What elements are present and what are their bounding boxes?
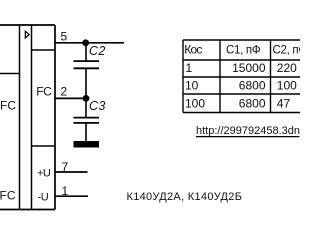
svg-text:К140УД2А, К140УД2Б: К140УД2А, К140УД2Б [127, 191, 243, 203]
svg-text:FC: FC [0, 189, 16, 203]
ground (solid bar) [74, 141, 100, 148]
svg-text:2: 2 [61, 84, 68, 98]
junction node on pin 2 wire [83, 95, 90, 102]
svg-text:FC: FC [36, 84, 52, 98]
svg-text:5: 5 [61, 29, 68, 43]
U1 right-column divider above supply cell [32, 145, 56, 147]
pin 7 wire [55, 171, 88, 173]
pin 2 wire [55, 97, 86, 99]
svg-text:220: 220 [277, 61, 297, 75]
capacitor C3 plates [74, 117, 100, 119]
capacitor C3 top lead wire [85, 98, 87, 117]
svg-text:С1, пФ: С1, пФ [226, 45, 261, 57]
svg-text:http://299792458.3dn: http://299792458.3dn [196, 125, 300, 137]
svg-text:15000: 15000 [232, 61, 266, 75]
svg-text:+U: +U [37, 167, 51, 179]
svg-text:6800: 6800 [239, 96, 266, 110]
pin 5 wire [55, 42, 124, 44]
svg-text:100: 100 [185, 96, 205, 110]
U1 right-column divider under pin-5 cell [32, 49, 56, 51]
capacitor C2 top lead wire [85, 43, 87, 61]
svg-text:FC: FC [0, 99, 16, 113]
svg-text:C3: C3 [89, 99, 106, 113]
svg-text:6800: 6800 [239, 79, 266, 93]
svg-text:100: 100 [277, 79, 297, 93]
svg-text:1: 1 [186, 61, 193, 75]
capacitor C2 bottom lead wire [85, 68, 87, 98]
U1 inner column line left [19, 25, 21, 210]
pin 1 wire [55, 195, 88, 197]
op-amp U1 body (К140УД2, left-cropped rectangle) [0, 25, 55, 210]
svg-text:Кос: Кос [184, 43, 202, 57]
svg-text:С2, пФ: С2, пФ [273, 45, 301, 57]
capacitor C3 bottom lead wire [85, 123, 87, 141]
svg-text:C2: C2 [89, 44, 106, 58]
junction node on pin 5 wire [82, 39, 89, 46]
U1 inner column line right [31, 25, 33, 210]
table grid [183, 40, 300, 113]
svg-text:47: 47 [277, 96, 291, 110]
U1 left-column cell divider [0, 73, 20, 75]
svg-text:-U: -U [38, 192, 49, 204]
site url underline [196, 136, 300, 138]
svg-text:10: 10 [185, 79, 199, 93]
capacitor C2 plates [74, 60, 100, 62]
amplifier triangle mark [25, 31, 29, 38]
